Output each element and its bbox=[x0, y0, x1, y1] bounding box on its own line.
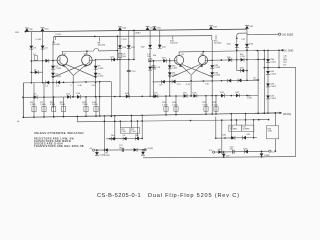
wire column x247 bbox=[246, 29, 248, 80]
title drawing number bbox=[97, 193, 141, 199]
capacitor C20 bbox=[230, 147, 235, 154]
wire cross couple Q2 base to Q1 collector bbox=[53, 64, 84, 77]
svg-text:CS-B-5205-0-1: CS-B-5205-0-1 bbox=[97, 193, 141, 199]
svg-text:1,500: 1,500 bbox=[162, 104, 168, 106]
diode D49 to ground bbox=[222, 151, 231, 157]
svg-text:C-662: C-662 bbox=[172, 68, 177, 70]
resistor R27 column bbox=[202, 96, 208, 115]
svg-text:1,500: 1,500 bbox=[40, 104, 46, 106]
diode D45 bbox=[227, 43, 239, 47]
svg-text:C-662: C-662 bbox=[214, 67, 221, 69]
diode D44 on top rail bbox=[245, 25, 254, 28]
wire top rail +10V B15 bbox=[15, 29, 247, 34]
wire left FF collector link bbox=[62, 35, 119, 60]
resistor R11 column bbox=[60, 97, 66, 117]
wire vert x104.4 bbox=[104, 116, 106, 151]
wire C21 bracket bbox=[236, 33, 247, 41]
diode D33A clamp bbox=[158, 45, 167, 49]
resistor R24 column bbox=[172, 96, 178, 115]
diode D67 on top rail bbox=[209, 26, 218, 29]
svg-text:C-662: C-662 bbox=[270, 61, 277, 63]
diode D35 on trigger bus bbox=[183, 92, 188, 98]
wire rail2 -15V margin bus bbox=[54, 34, 212, 37]
resistor box R19 R21 bbox=[120, 128, 140, 134]
diode D8 C-662 bbox=[94, 73, 105, 78]
wire column x31 bbox=[31, 32, 33, 84]
resistor R23 column bbox=[162, 96, 168, 116]
svg-text:C-105: C-105 bbox=[55, 34, 62, 36]
terminal PB input bbox=[89, 148, 95, 151]
diode D41 C-662 bbox=[266, 71, 277, 75]
node numbers W8 bbox=[160, 84, 210, 87]
diode D40 C-662 bbox=[266, 96, 277, 100]
diode D29A on W5b bbox=[162, 58, 167, 63]
resistor box R38 bbox=[266, 126, 278, 139]
wire vert x221.8 bbox=[221, 119, 223, 152]
resistor R28 column bbox=[212, 96, 218, 115]
wire column x153.5 coupling cap bbox=[153, 60, 155, 97]
note text block bbox=[34, 132, 85, 148]
wire left flank column x169.8 bbox=[169, 58, 171, 97]
svg-text:C-662: C-662 bbox=[55, 76, 62, 78]
svg-text:1,500: 1,500 bbox=[50, 104, 56, 106]
wire bottom rail B+ -15V bbox=[17, 112, 291, 123]
wire pulse row right y137.9 bbox=[216, 137, 257, 139]
wire bus link y67.6 bbox=[264, 67, 295, 69]
resistor R9 column bbox=[50, 97, 56, 118]
svg-text:.01MFD: .01MFD bbox=[253, 80, 260, 82]
wire vert x114.8 bbox=[114, 116, 116, 140]
svg-text:C-662: C-662 bbox=[247, 97, 252, 99]
diode D37 on top rail bbox=[146, 27, 155, 30]
label 1M4 C-662 x247 bbox=[247, 95, 252, 99]
node A1B2 rail tap bbox=[133, 30, 141, 35]
svg-text:C-105: C-105 bbox=[36, 39, 43, 41]
resistor R8 100,000 bbox=[98, 37, 106, 46]
wire vert x137.5 bbox=[137, 120, 139, 139]
wire cross couple Q3 base to Q4 collector bbox=[182, 64, 212, 76]
diode D36 on W8 bbox=[228, 79, 231, 83]
wire left flank column x53 bbox=[52, 37, 54, 108]
diode D64 on top rail bbox=[118, 27, 127, 30]
svg-text:C-662: C-662 bbox=[270, 98, 277, 100]
diode D31 C-662 bbox=[168, 72, 177, 76]
transistor Q4 bbox=[191, 52, 212, 75]
wire input row y150 bbox=[95, 149, 146, 151]
svg-text:1,500: 1,500 bbox=[92, 104, 98, 106]
svg-text:C-662: C-662 bbox=[98, 76, 105, 78]
wire CAL output bbox=[247, 33, 294, 36]
diode D40A on W6 bbox=[240, 54, 245, 62]
svg-text:1,500: 1,500 bbox=[172, 104, 178, 106]
svg-text:(29 D1): (29 D1) bbox=[283, 113, 292, 116]
svg-text:470: 470 bbox=[283, 64, 286, 66]
capacitor C12 bbox=[119, 145, 124, 152]
terminal SE input bbox=[269, 150, 276, 153]
diode D34A C-662 bbox=[210, 72, 221, 76]
svg-text:C-662: C-662 bbox=[270, 86, 277, 88]
svg-text:UNLESS OTHERWISE INDICATED:: UNLESS OTHERWISE INDICATED: bbox=[34, 132, 85, 135]
diode D41A on trigger bus bbox=[220, 92, 225, 98]
wire ground line y157.4 bbox=[143, 156, 296, 158]
diode D50 to ground bbox=[260, 151, 271, 157]
wire R38 top bbox=[275, 112, 277, 126]
diode D18A to ground bbox=[95, 149, 106, 156]
wire bus x264 bbox=[264, 50, 266, 114]
title name bbox=[148, 193, 240, 199]
wire col x279 bbox=[278, 50, 280, 67]
resistor 1.8K column x120 bbox=[118, 53, 127, 58]
capacitor box C18 C19 bbox=[229, 125, 254, 131]
diode 766 on top rail bbox=[25, 28, 33, 31]
diode D15 on trigger bus bbox=[66, 93, 71, 99]
wire link x31-x42.6 lower bbox=[31, 72, 43, 74]
resistor R37 label bbox=[283, 62, 286, 66]
node left FF emitter junction bbox=[72, 75, 74, 98]
diode D21 on input row bbox=[134, 148, 137, 152]
svg-text:.001MFD: .001MFD bbox=[242, 128, 250, 130]
transistor Q3 bbox=[170, 52, 191, 75]
diode D46 bbox=[245, 44, 254, 48]
diode D44A pulse row bbox=[243, 134, 251, 139]
diode D16 on trigger bus bbox=[76, 93, 81, 99]
diode D28 clamp bbox=[118, 39, 127, 49]
wire right flank column x212.2 bbox=[211, 36, 213, 115]
svg-text:C-662: C-662 bbox=[98, 68, 105, 70]
diode D34 on top rail bbox=[153, 26, 162, 29]
diode D13 on W7 bbox=[57, 80, 60, 84]
svg-text:A1B2: A1B2 bbox=[135, 31, 141, 34]
diode D42B C-662 bbox=[266, 59, 277, 63]
wire right FF collector link to DC GND bbox=[179, 49, 294, 52]
diode D30 C-662 bbox=[168, 65, 177, 69]
diode D19 on trigger bus bbox=[125, 93, 130, 99]
diode D37A on W8 bbox=[238, 79, 241, 83]
wire link x31-x53 upper bbox=[31, 60, 54, 62]
wire vert x245.5 bbox=[245, 114, 247, 126]
wire R38 bottom bbox=[275, 139, 277, 152]
svg-text:+10(P): +10(P) bbox=[147, 148, 154, 150]
wire column x120 clamp bbox=[119, 30, 121, 97]
svg-text:1,500: 1,500 bbox=[30, 104, 36, 106]
wire input row right y152 bbox=[215, 150, 269, 153]
wire vert x120.3 bbox=[120, 120, 122, 127]
diode D9 on upper link bbox=[45, 59, 48, 63]
svg-text:C-662: C-662 bbox=[104, 155, 111, 157]
wire column x99.75 bbox=[99, 81, 101, 117]
svg-text:MFD: MFD bbox=[283, 60, 288, 62]
svg-text:.001MFD: .001MFD bbox=[230, 128, 238, 130]
svg-text:1,500: 1,500 bbox=[212, 104, 218, 106]
svg-text:Dual Flip-Flop 5205 (Rev C): Dual Flip-Flop 5205 (Rev C) bbox=[148, 193, 240, 199]
wire column x128.8 coupling bbox=[128, 30, 130, 97]
transistor Q1 bbox=[53, 52, 73, 76]
diode D36A on trigger bus bbox=[193, 92, 198, 98]
diode D47 input row bbox=[218, 149, 222, 154]
svg-text:CAL B1B2: CAL B1B2 bbox=[282, 34, 294, 37]
svg-text:C-662: C-662 bbox=[214, 75, 221, 77]
wire column x42.6 bbox=[36, 32, 44, 84]
wire lower +10 distribution rail bbox=[77, 116, 270, 122]
svg-text:100,000: 100,000 bbox=[214, 43, 222, 45]
svg-text:7,500: 7,500 bbox=[82, 104, 88, 106]
wire vert x253.6 bbox=[253, 119, 255, 139]
wire column x150.1 clamp bbox=[149, 30, 151, 97]
diode D26 on W8 bbox=[161, 80, 164, 84]
diode D39 on W6 bbox=[227, 57, 232, 62]
diode D32 clamp bbox=[141, 45, 152, 49]
diode D27 on W8 bbox=[172, 80, 175, 84]
diode D7A C-662 bbox=[51, 73, 62, 78]
wire vert x131.3 bbox=[131, 115, 133, 127]
svg-text:7,500: 7,500 bbox=[202, 104, 208, 106]
svg-text:100,000: 100,000 bbox=[52, 44, 60, 46]
resistor R16 100,000 bbox=[214, 35, 222, 44]
capacitor C24 bbox=[152, 66, 161, 69]
wire cross couple Q1 base to Q2 collector bbox=[66, 64, 96, 77]
wire right flank column x95.6 bbox=[95, 59, 97, 98]
diode D5 C-662 bbox=[51, 66, 62, 70]
svg-text:1-D: 1-D bbox=[218, 149, 222, 151]
wire trigger bus y97 bbox=[22, 95, 258, 98]
diode D7 on lower link bbox=[34, 69, 38, 74]
wire pulse row y138.6 bbox=[106, 138, 142, 140]
diode D34B on column x150.1 bbox=[148, 67, 157, 71]
resistor 1.8K column x150.1 bbox=[147, 54, 157, 62]
resistor R14 column bbox=[92, 97, 98, 117]
resistor R12 column bbox=[82, 97, 88, 117]
svg-text:S D: S D bbox=[209, 150, 213, 152]
diode D11 on W5 bbox=[111, 56, 116, 61]
svg-text:C-662: C-662 bbox=[55, 68, 62, 70]
diode D42A on trigger bus bbox=[235, 92, 240, 98]
diode D43A pulse row bbox=[222, 134, 235, 139]
wire vert x142.2 bbox=[141, 115, 143, 139]
resistor 1K on upper link bbox=[33, 54, 37, 60]
diode D48 input row bbox=[244, 149, 249, 154]
wire W6 right FF feed bbox=[208, 59, 265, 61]
terminal SD input bbox=[209, 150, 215, 153]
node right FF emitter junction bbox=[190, 75, 192, 97]
diode D22 on pulse row bbox=[135, 135, 139, 141]
svg-text:7,500: 7,500 bbox=[131, 131, 136, 133]
svg-text:DC GND: DC GND bbox=[283, 49, 293, 52]
resistor R6 column bbox=[30, 83, 36, 118]
wire W5b segment bbox=[153, 60, 170, 62]
wire column x236.8 bbox=[236, 38, 238, 70]
diode D25 on trigger bus bbox=[154, 93, 159, 99]
terminal PD input bbox=[144, 148, 153, 151]
wire column x258.1 bbox=[253, 51, 260, 115]
svg-text:C-105: C-105 bbox=[240, 56, 245, 58]
diode D33 C-662 bbox=[210, 65, 221, 69]
wire cross couple Q4 base to Q3 collector bbox=[172, 64, 200, 76]
junctions on bottom rail bbox=[53, 112, 276, 117]
diode D64 on top rail bbox=[41, 28, 50, 31]
diode D20 on pulse row bbox=[123, 135, 127, 141]
diode D18 on input row bbox=[104, 148, 111, 157]
resistor R13 100,000 bbox=[170, 36, 178, 45]
svg-text:C-662: C-662 bbox=[270, 73, 277, 75]
resistor R7 column bbox=[40, 82, 46, 117]
svg-text:T-105: T-105 bbox=[121, 39, 127, 41]
wire right boundary x295.6 bbox=[295, 67, 297, 156]
svg-text:TRANSISTORS ARE DEC 2894-3B: TRANSISTORS ARE DEC 2894-3B bbox=[34, 145, 84, 148]
diode D6 C-662 bbox=[94, 66, 105, 70]
diode D29 clamp bbox=[127, 45, 136, 49]
diode D17 on pulse row bbox=[111, 135, 115, 141]
capacitor C10 bbox=[127, 70, 136, 73]
svg-text:100,000: 100,000 bbox=[170, 43, 178, 45]
diode D4 on column x42.6 bbox=[41, 46, 49, 50]
svg-text:100,000: 100,000 bbox=[98, 45, 106, 47]
wire W7 left row bbox=[23, 81, 113, 118]
wire W5 base feed left bbox=[96, 30, 135, 60]
wire vert x231.3b bbox=[231, 114, 233, 139]
capacitor C16 label bbox=[283, 55, 288, 61]
wire vert x215.8 bbox=[215, 117, 217, 139]
wire stub x159.75 bbox=[159, 30, 161, 48]
transistor Q2 bbox=[74, 51, 96, 75]
wire bus x268 bbox=[267, 50, 269, 113]
wire W8 right row bbox=[153, 79, 259, 82]
svg-text:7,500: 7,500 bbox=[60, 104, 66, 106]
wire vert x236.4 bbox=[236, 119, 238, 125]
diode D12 on W7 bbox=[46, 81, 49, 85]
svg-text:3,000: 3,000 bbox=[268, 131, 273, 133]
diode D3 on column x31 bbox=[29, 46, 37, 50]
diode D45A C-662 bbox=[266, 84, 277, 88]
node numbers W7 bbox=[45, 85, 96, 88]
resistor R5 100,000 bbox=[52, 37, 60, 47]
diode D2 on left stub bbox=[34, 94, 38, 99]
svg-text:7,500: 7,500 bbox=[121, 131, 126, 133]
diode D46A link bbox=[237, 67, 247, 72]
diode D23 to ground bbox=[141, 149, 145, 155]
